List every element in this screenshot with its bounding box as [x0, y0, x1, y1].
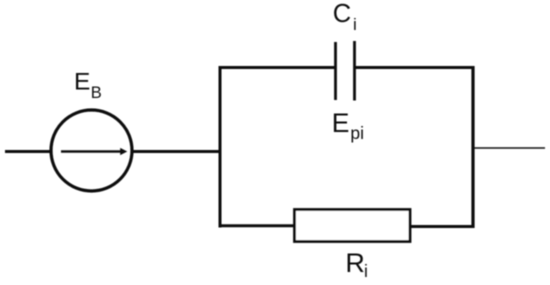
wire: right vertical branch: [471, 66, 474, 228]
svg-text:E: E: [74, 69, 90, 96]
svg-text:C: C: [333, 0, 351, 28]
label E_pi: [332, 108, 364, 143]
svg-text:pi: pi: [350, 123, 364, 143]
wire: bottom branch right segment: [410, 225, 475, 228]
wire: top branch right segment: [355, 66, 475, 69]
capacitor C1 right plate: [353, 41, 356, 101]
wire: bottom branch left segment: [219, 224, 297, 227]
resistor R1 body: [295, 210, 411, 242]
svg-text:E: E: [332, 108, 350, 138]
label E_B: [74, 69, 102, 102]
label C_i: [333, 0, 357, 34]
capacitor C1 left plate: [334, 42, 337, 100]
wire: top branch left segment: [219, 66, 337, 69]
label R_i: [345, 248, 367, 281]
wire: source to node (left junction): [131, 150, 221, 153]
svg-text:R: R: [345, 248, 365, 278]
svg-text:B: B: [91, 84, 102, 102]
wire: output lead right: [475, 147, 546, 149]
wire: left vertical branch: [219, 66, 222, 228]
svg-text:i: i: [353, 15, 357, 34]
svg-text:i: i: [364, 261, 368, 281]
wire: input lead left: [5, 150, 52, 153]
arrow inside source (current direction): [61, 148, 127, 155]
source U1 (voltage source E_B circle): [51, 110, 132, 191]
